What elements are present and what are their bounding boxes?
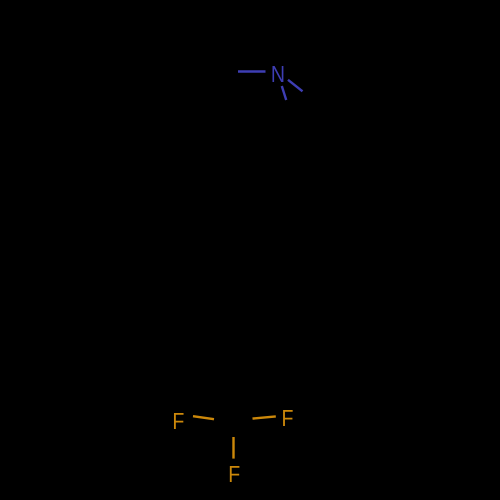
svg-text:F: F bbox=[228, 461, 240, 487]
bond C-F3 (orange half, vertical) bbox=[232, 437, 234, 459]
bond N-CH3 (blue half, horizontal) bbox=[238, 70, 266, 72]
svg-text:F: F bbox=[172, 408, 184, 434]
bond C-F1 (orange half, horizontal left) bbox=[193, 416, 214, 419]
bond N-C2 (blue half, shallow down-right) bbox=[288, 80, 303, 92]
svg-text:N: N bbox=[271, 61, 285, 87]
svg-text:F: F bbox=[282, 405, 294, 431]
bond N-C3 (blue half, steep down-right) bbox=[282, 86, 286, 100]
bond C-F2 (orange half, horizontal right) bbox=[253, 416, 276, 418]
